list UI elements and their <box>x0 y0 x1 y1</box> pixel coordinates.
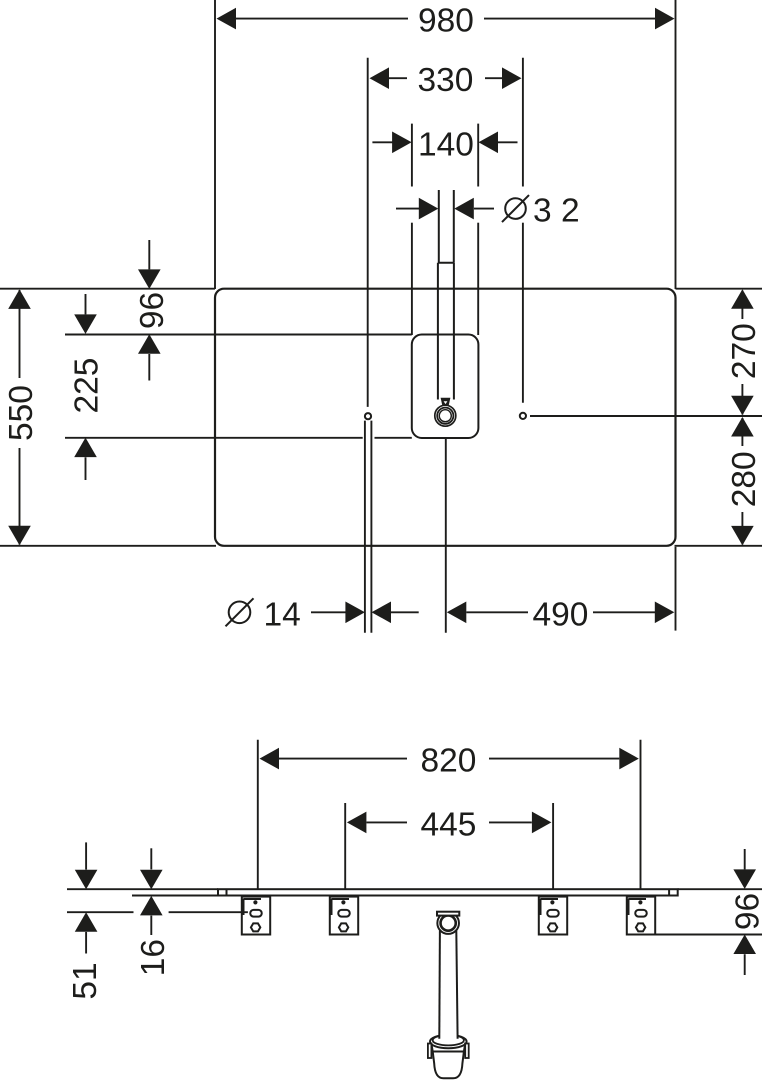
svg-text:270: 270 <box>726 323 762 379</box>
svg-text:330: 330 <box>418 62 474 99</box>
svg-text:51: 51 <box>67 962 104 999</box>
svg-text:225: 225 <box>69 358 106 414</box>
svg-text:280: 280 <box>726 451 762 507</box>
svg-text:550: 550 <box>3 385 40 441</box>
svg-text:980: 980 <box>418 3 474 40</box>
svg-text:445: 445 <box>421 806 477 843</box>
svg-text:140: 140 <box>418 126 474 163</box>
svg-text:96: 96 <box>730 893 762 930</box>
svg-text:820: 820 <box>421 743 477 780</box>
svg-text:3 2: 3 2 <box>533 193 580 230</box>
svg-text:16: 16 <box>135 939 172 976</box>
svg-text:14: 14 <box>264 596 301 633</box>
svg-text:96: 96 <box>134 292 171 329</box>
svg-text:490: 490 <box>533 596 589 633</box>
